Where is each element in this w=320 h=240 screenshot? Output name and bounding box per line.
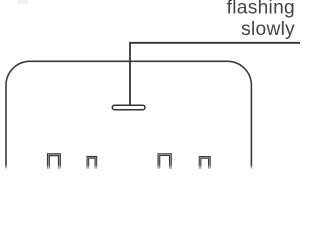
callout line from LED to label bbox=[130, 43, 300, 105]
socket slot 2 (small) bbox=[88, 157, 96, 169]
socket slot 4 (small) bbox=[200, 157, 209, 169]
socket slot 3 (large) bbox=[159, 155, 171, 169]
faint smudge top-left (cut-off artwork above) bbox=[17, 0, 28, 4]
LED indicator pill bbox=[112, 105, 145, 110]
socket slot 1 (large, left) bbox=[48, 155, 59, 169]
svg-text:flashing: flashing bbox=[227, 0, 295, 19]
device outline (rounded top of power strip) bbox=[6, 61, 251, 168]
svg-text:slowly: slowly bbox=[241, 19, 295, 40]
